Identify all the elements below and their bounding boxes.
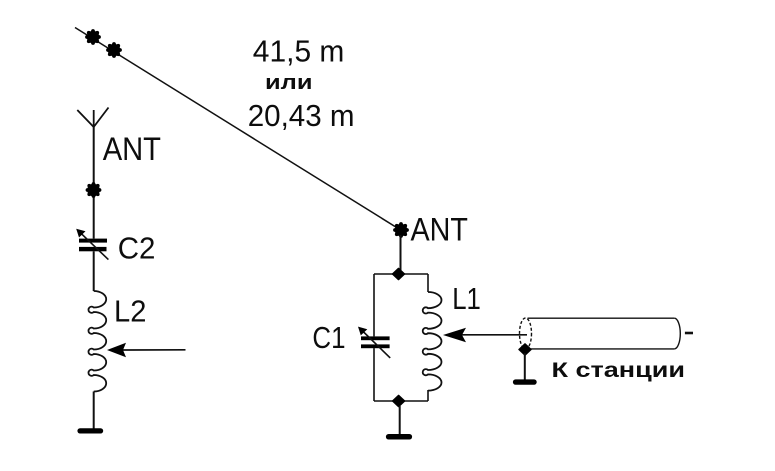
svg-text:41,5 m: 41,5 m xyxy=(253,33,345,68)
node ANT right (blob) xyxy=(393,222,409,238)
svg-text:C2: C2 xyxy=(118,231,156,266)
antenna symbol left xyxy=(77,108,108,128)
wire: ANT node down to tank top xyxy=(400,235,402,274)
wire: left vertical from antenna to C2 xyxy=(93,127,95,239)
feed arrow from coax to L1 xyxy=(443,328,527,342)
inductor L2 xyxy=(88,291,106,392)
ground left xyxy=(77,428,103,433)
capacitor C2 (variable) xyxy=(76,229,108,260)
tank circuit rectangle xyxy=(374,274,428,401)
svg-text:К станции: К станции xyxy=(552,358,686,382)
insulator bead 1 on antenna wire xyxy=(85,29,101,45)
svg-text:L2: L2 xyxy=(114,294,146,329)
junction node coax shield xyxy=(519,344,531,355)
svg-text:C1: C1 xyxy=(312,320,345,355)
tap arrow into L2 xyxy=(107,343,186,357)
ground right xyxy=(386,434,412,440)
wire: long antenna diagonal xyxy=(75,28,399,230)
svg-text:или: или xyxy=(265,71,313,94)
coax cable to station xyxy=(520,318,681,349)
junction node bottom xyxy=(393,395,405,406)
junction node top xyxy=(393,268,405,279)
inductor L1 xyxy=(423,292,442,391)
svg-text:ANT: ANT xyxy=(411,212,468,248)
insulator bead 2 on antenna wire xyxy=(106,42,122,58)
svg-text:ANT: ANT xyxy=(103,131,161,167)
wire: L2 to ground xyxy=(93,392,95,431)
svg-text:20,43 m: 20,43 m xyxy=(248,98,355,133)
wire: C2 to L2 xyxy=(93,251,95,291)
insulator bead on left wire xyxy=(86,182,102,198)
wire: shield to ground xyxy=(524,353,526,380)
capacitor C1 (variable) xyxy=(358,327,390,358)
wire: tank bottom to ground xyxy=(399,406,401,434)
svg-text:L1: L1 xyxy=(452,281,481,316)
dash after coax xyxy=(685,332,693,335)
ground coax xyxy=(513,379,537,384)
